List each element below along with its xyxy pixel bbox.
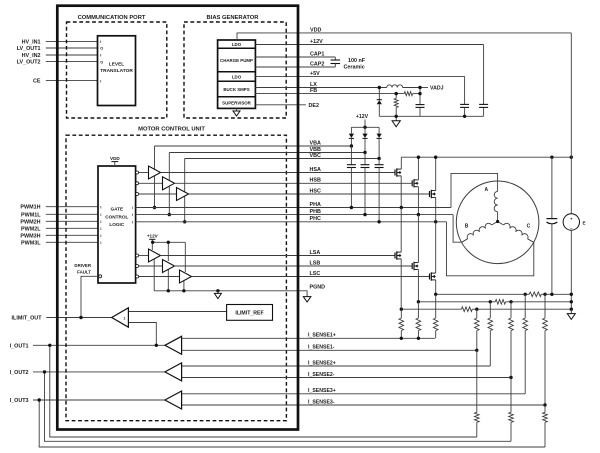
svg-text:I: I (100, 54, 101, 58)
wire LX (255, 87, 386, 89)
wire gcl to LS driver 1 (139, 255, 149, 257)
svg-text:SUPERVISOR: SUPERVISOR (222, 100, 252, 105)
bias ground stub (236, 108, 238, 111)
inductor L1 (387, 85, 403, 88)
junction dot fault-ilimit (79, 316, 82, 319)
wire phase B (453, 215, 462, 243)
wire gcl to HS driver 1 (139, 172, 149, 174)
svg-text:A: A (484, 187, 488, 193)
svg-text:HSC: HSC (310, 188, 321, 194)
wire VADJ stub (420, 87, 428, 89)
wire buck gnd rail (379, 115, 483, 117)
resistor shunt A (529, 292, 541, 297)
svg-text:VBC: VBC (310, 153, 321, 159)
wire CE (46, 80, 98, 82)
svg-text:+12V: +12V (147, 233, 159, 238)
svg-text:HV_IN1: HV_IN1 (22, 39, 41, 45)
svg-text:LV_OUT1: LV_OUT1 (17, 46, 41, 52)
wire VADJ vertical (419, 88, 421, 105)
junction dot minus x=545 (543, 403, 546, 406)
svg-text:ILIMIT_OUT: ILIMIT_OUT (12, 316, 43, 322)
op-amp LS driver 2 (163, 260, 175, 273)
wire minus to wrap x=511 (510, 422, 512, 441)
svg-text:GATE: GATE (110, 207, 123, 212)
wire gcl to HS driver 2 (139, 182, 163, 184)
svg-text:I_OUT3: I_OUT3 (10, 398, 29, 404)
wire I_SENSE3+ (182, 393, 526, 395)
svg-text:PWM1H: PWM1H (20, 205, 40, 211)
wire PWM3H (46, 234, 98, 236)
svg-text:PWM3L: PWM3L (21, 240, 41, 246)
wire I_SENSE1+ (182, 337, 435, 339)
wire LSC (192, 276, 430, 278)
ground bias (233, 111, 240, 116)
wire line A (436, 293, 530, 295)
wire sense1p branch top x=401.3 (400, 309, 402, 318)
diode D-buck (377, 99, 382, 101)
junction dot minus x=511 (509, 376, 512, 379)
svg-text:I: I (100, 40, 101, 44)
wire minus lower x=476.8 (476, 350, 478, 412)
svg-text:E: E (583, 220, 586, 225)
wire VBB (169, 152, 365, 154)
junction dots VB (350, 144, 353, 147)
wire phase A (451, 173, 498, 207)
wire I_SENSE2- (182, 377, 511, 379)
svg-text:ILIMIT_REF: ILIMIT_REF (235, 311, 263, 317)
svg-text:LOGIC: LOGIC (109, 222, 124, 227)
op-amp HS driver 2 (163, 177, 175, 190)
wire HV_IN2 (46, 54, 98, 56)
svg-text:LSA: LSA (310, 250, 321, 256)
wire fault to ilimit (81, 276, 99, 317)
wire VDD down right (570, 33, 572, 214)
resistor shunt B (495, 300, 505, 305)
capacitor C-5V (460, 103, 469, 105)
wire I_SENSE1- (182, 349, 477, 351)
svg-text:TRANSLATOR: TRANSLATOR (100, 68, 133, 74)
svg-text:FAULT: FAULT (77, 269, 91, 274)
svg-text:I_SENSE2+: I_SENSE2+ (308, 360, 336, 366)
wire sense1p branch bot x=418.4 (417, 331, 419, 339)
svg-text:+12V: +12V (356, 114, 369, 120)
wire plus tap bot x=490.3 (489, 331, 491, 366)
junction dots line C (400, 308, 403, 311)
svg-text:PGND: PGND (310, 285, 326, 291)
transistor Q1 HS (394, 170, 396, 176)
wire cvadj dn (419, 107, 421, 116)
svg-text:COMMUNICATION PORT: COMMUNICATION PORT (78, 15, 146, 21)
svg-text:I_OUT2: I_OUT2 (10, 370, 29, 376)
wire +5V (255, 75, 464, 77)
wire PHC (136, 221, 447, 223)
wire LSB (175, 265, 413, 267)
bias generator dashed box (184, 22, 286, 118)
wire Q4 drain (400, 208, 402, 253)
wire VB drop 3 (184, 159, 186, 193)
svg-text:LSB: LSB (310, 260, 321, 266)
svg-text:I: I (132, 220, 133, 224)
wire HV_IN1 (46, 40, 98, 42)
wire PWM2H (46, 220, 98, 222)
svg-text:PWM2L: PWM2L (21, 226, 41, 232)
resistor R plus x=490.3 (488, 318, 493, 331)
svg-text:VADJ: VADJ (430, 86, 444, 92)
svg-text:CE: CE (33, 79, 41, 85)
motor winding B (492, 222, 498, 226)
wire line C (401, 308, 461, 310)
svg-text:I: I (100, 241, 101, 245)
transistor Q3 HS (429, 191, 431, 197)
wire LS T2 top drop (167, 242, 169, 261)
wire PH return drop 3 (184, 196, 186, 222)
capacitor Cboot C (378, 159, 380, 165)
wire VDD from stack (237, 33, 571, 40)
wire dbuck dn (378, 105, 380, 117)
wire PH return drop 1 (154, 175, 156, 208)
svg-text:+5V: +5V (310, 71, 320, 77)
wire I_OUT3 (33, 399, 165, 401)
svg-text:I: I (100, 234, 101, 238)
wire minus to wrap x=476.8 (476, 422, 478, 437)
wire comp to ref (128, 311, 226, 313)
svg-text:HSB: HSB (310, 178, 321, 184)
svg-text:I_SENSE1-: I_SENSE1- (308, 345, 335, 351)
junction dots line A (434, 293, 437, 296)
junction dots top right (378, 86, 381, 89)
ground internal (214, 293, 221, 298)
motor winding A (494, 191, 497, 211)
junction dot comp tap (155, 344, 158, 347)
wire c12v dn (483, 107, 485, 116)
+12V LS tee (149, 238, 155, 240)
wire PWM2L (46, 227, 98, 229)
junction dots PH outside (350, 206, 353, 209)
ground buck (392, 121, 400, 127)
wire +12V feed (364, 120, 366, 128)
wire internal gnd stub (217, 291, 219, 293)
svg-text:CONTROL: CONTROL (105, 214, 128, 219)
wire gnd stub buck (395, 116, 397, 121)
resistor R-FB (404, 92, 412, 96)
capacitor C-DC link (551, 157, 553, 218)
wire PH return drop 2 (168, 185, 170, 214)
ground PGND (303, 297, 311, 302)
wire sense1p branch top x=418.4 (417, 302, 419, 318)
wire PWM3L (46, 241, 98, 243)
transistor Q5 LS (411, 263, 413, 269)
wire minus lower x=511 (510, 378, 512, 413)
wire LV_OUT2 (46, 61, 98, 63)
gcl fault pin circle (99, 275, 102, 278)
wire LS bottom drop 3 (183, 279, 185, 291)
wire LSA (161, 255, 396, 257)
wire +12V LS bus (153, 241, 186, 243)
svg-text:I: I (132, 206, 133, 210)
op-amp HS driver 3 (177, 188, 189, 201)
svg-text:I_SENSE1+: I_SENSE1+ (308, 333, 336, 339)
wire Q3 source (435, 197, 437, 221)
communication port dashed box (67, 22, 167, 118)
wire +5V cap branch (464, 76, 466, 104)
svg-text:Ceramic: Ceramic (344, 65, 365, 71)
gate control logic block U2 (98, 166, 136, 283)
gcl output circle LS3 (136, 275, 139, 278)
wire Q3 drain (435, 157, 437, 190)
battery E (563, 214, 579, 230)
wire VB drop 1 (154, 146, 156, 171)
motor control unit dashed box (66, 135, 286, 421)
diode at x=379.1 (378, 127, 380, 133)
svg-text:1: 1 (124, 317, 126, 321)
wire HSC (189, 193, 430, 195)
gcl output circle LS1 (136, 254, 139, 257)
wire CAP1 (255, 56, 335, 58)
wire I_OUT1 wrap (50, 345, 477, 437)
svg-text:PHC: PHC (310, 216, 321, 222)
op-amp LS driver 3 (180, 270, 192, 283)
capacitor CAP1-CAP2 100nF (334, 57, 336, 60)
resistor R minus upper x=511 (509, 318, 514, 331)
svg-text:HV_IN2: HV_IN2 (22, 53, 41, 59)
wire plus tap top x=490.3 (489, 302, 491, 318)
motor winding C (498, 222, 504, 226)
resistor shunt C (462, 307, 473, 312)
wire diode bus (351, 126, 379, 128)
wire PGND bus (154, 290, 298, 292)
wire Q2 drain (417, 157, 419, 180)
wire c5v dn (464, 107, 466, 116)
wire +12V cap branch (483, 45, 485, 105)
bias stack outline (218, 40, 256, 108)
wire DE2 (255, 104, 306, 106)
wire LS bottom drop 2 (167, 268, 169, 291)
resistor R minus lower x=545 (543, 412, 548, 422)
gcl output circle HS2 (136, 182, 139, 185)
wire gcl to LS driver 2 (139, 265, 163, 267)
wire LX to VADJ node (403, 87, 420, 89)
wire gnd right stub (570, 309, 572, 313)
capacitor Cboot A (350, 146, 352, 165)
resistor R sense1p x=435.7 (433, 318, 438, 331)
wire VBA (155, 145, 352, 147)
resistor R-div branch (395, 94, 397, 99)
motor circle M (456, 181, 539, 264)
svg-text:B: B (465, 224, 469, 230)
wire LV_OUT1 (46, 47, 98, 49)
wire battery down (570, 230, 572, 309)
capacitor Cboot B (364, 153, 366, 165)
wire CAP2 (255, 66, 335, 68)
op-amp sense amp 2 (165, 363, 182, 381)
wire plus tap bot x=525.2 (524, 331, 526, 394)
LDO2 block (218, 80, 256, 82)
wire Q6 source (435, 280, 437, 294)
diode at x=365 (364, 127, 366, 133)
ground right (567, 314, 575, 320)
svg-text:MOTOR CONTROL UNIT: MOTOR CONTROL UNIT (138, 126, 205, 132)
wire plus tap top x=525.2 (524, 294, 526, 318)
diode at x=351.4 (350, 127, 352, 133)
op-amp sense amp 3 (165, 391, 182, 409)
wire I_SENSE3- (182, 404, 545, 406)
wire PGND stub (298, 291, 307, 297)
svg-text:DE2: DE2 (309, 103, 320, 109)
svg-text:LV_OUT2: LV_OUT2 (17, 60, 41, 66)
resistor R sense1p x=418.4 (416, 318, 421, 331)
svg-text:PHB: PHB (310, 209, 321, 215)
junction dot diode bus (363, 126, 366, 129)
svg-text:I: I (100, 213, 101, 217)
svg-text:PWM1L: PWM1L (21, 212, 41, 218)
wire PHB (136, 214, 454, 216)
wire I_OUT2 (33, 371, 165, 373)
transistor Q4 LS (394, 253, 396, 259)
wire minus mid x=476.8 (476, 331, 478, 351)
motor star dot (496, 220, 499, 223)
wire top rail VM (400, 157, 402, 169)
IC chip outline (57, 6, 298, 430)
resistor R sense1p x=401.3 (399, 318, 404, 331)
buck smps block (218, 96, 256, 98)
wire sense1p branch bot x=435.7 (435, 331, 437, 339)
svg-text:I: I (100, 227, 101, 231)
wire minus lower x=545 (544, 405, 546, 412)
svg-text:PWM3H: PWM3H (20, 233, 40, 239)
svg-text:HSA: HSA (310, 167, 321, 173)
wire PWM1H (46, 206, 98, 208)
gcl output circle HS3 (136, 193, 139, 196)
wire sense1p branch top x=435.7 (435, 294, 437, 318)
svg-text:LDO: LDO (232, 42, 242, 47)
junction dots I_SENSE1+ (400, 337, 403, 340)
junction dots LS bus (151, 241, 154, 244)
op-amp LS driver 1 (149, 249, 161, 262)
wire minus tap top x=511 (510, 302, 512, 318)
capacitor C-12V (479, 103, 488, 105)
op-amp ILIMIT comparator (112, 308, 129, 327)
svg-text:O: O (100, 47, 103, 51)
wire LS T3 top drop (184, 242, 186, 272)
svg-text:LEVEL: LEVEL (109, 62, 125, 68)
resistor R minus lower x=511 (509, 412, 514, 422)
svg-text:CHARGE PUMP: CHARGE PUMP (220, 58, 253, 63)
wire FB to VADJ node (413, 93, 420, 95)
transistor Q2 HS (411, 180, 413, 186)
charge pump block (218, 71, 256, 73)
svg-text:I: I (100, 220, 101, 224)
svg-text:LDO: LDO (232, 74, 242, 79)
wire Q6 drain (435, 222, 437, 273)
wire I_OUT3 wrap (39, 400, 545, 447)
wire rdiv dn (395, 108, 397, 117)
wire minus mid x=545 (544, 331, 546, 405)
wire sense1p branch bot x=401.3 (400, 331, 402, 339)
diode D-buck branch (378, 88, 380, 100)
op-amp sense amp 1 (165, 336, 182, 354)
svg-text:+12V: +12V (310, 39, 323, 45)
svg-text:PHA: PHA (310, 202, 321, 208)
wire I_OUT1 (33, 344, 165, 346)
wire Q4 source (400, 259, 402, 309)
svg-text:VDD: VDD (310, 27, 321, 33)
transistor Q6 LS (429, 274, 431, 280)
svg-text:I: I (100, 205, 101, 209)
wire Q5 drain (417, 215, 419, 263)
svg-text:FB: FB (310, 88, 317, 94)
svg-text:C: C (527, 224, 531, 230)
svg-text:PWM2H: PWM2H (20, 219, 40, 225)
wire Q1 source (400, 176, 402, 208)
svg-text:VBA: VBA (310, 140, 321, 146)
wire minus tap top x=476.8 (476, 309, 478, 318)
level translator block U1 (98, 36, 136, 106)
wire minus tap top x=545 (544, 294, 546, 318)
junction dots line B (417, 300, 420, 303)
wire I_SENSE2+ (182, 365, 491, 367)
wire VB drop 2 (168, 153, 170, 182)
svg-text:I: I (100, 79, 101, 83)
wire PWM1L (46, 213, 98, 215)
wire line B (418, 301, 495, 303)
svg-text:LSC: LSC (310, 271, 321, 277)
wire ILIMIT_OUT (46, 317, 111, 319)
wire gcl to LS driver 3 (139, 276, 180, 278)
svg-text:BUCK SMPS: BUCK SMPS (223, 87, 249, 92)
resistor R-div (394, 98, 398, 107)
resistor R minus lower x=476.8 (475, 412, 480, 422)
wire Q2 source (417, 187, 419, 215)
wire minus to wrap x=545 (544, 422, 546, 447)
svg-text:I_SENSE3+: I_SENSE3+ (308, 388, 336, 394)
svg-text:I_SENSE3-: I_SENSE3- (308, 399, 335, 405)
junction dots rail (417, 156, 420, 159)
svg-text:100 nF: 100 nF (348, 58, 366, 64)
wire comp lower input (128, 323, 156, 346)
svg-text:DRIVER: DRIVER (74, 263, 91, 268)
svg-text:CAP2: CAP2 (310, 61, 324, 67)
junction dots PGND bus (167, 289, 170, 292)
wire PHA (136, 207, 451, 209)
wire +12V (255, 44, 483, 46)
resistor R minus upper x=545 (543, 318, 548, 331)
junction dot minus x=476.8 (475, 349, 478, 352)
gcl output circle HS1 (136, 171, 139, 174)
svg-text:I_SENSE2-: I_SENSE2- (308, 372, 335, 378)
op-amp HS driver 1 (149, 166, 161, 179)
wire I_OUT2 wrap (45, 372, 512, 441)
wire LS bottom drop 1 (153, 258, 155, 291)
wire gcl to HS driver 3 (139, 193, 177, 195)
resistor R plus x=525.2 (523, 318, 528, 331)
svg-text:I_OUT1: I_OUT1 (10, 343, 29, 349)
svg-text:CAP1: CAP1 (310, 51, 324, 57)
svg-text:BIAS GENERATOR: BIAS GENERATOR (207, 15, 260, 21)
capacitor C-VADJ (416, 104, 425, 106)
wire VBC (185, 158, 379, 160)
svg-text:LX: LX (310, 82, 317, 88)
svg-text:O: O (100, 60, 103, 64)
wire HSA (161, 172, 396, 174)
wire Q5 source (417, 269, 419, 301)
LDO block (218, 47, 256, 49)
wire minus mid x=511 (510, 331, 512, 378)
junction dots I_OUT (48, 344, 51, 347)
junction dots HS returns (153, 206, 156, 209)
svg-text:I: I (132, 213, 133, 217)
ILIMIT_REF box (227, 305, 273, 321)
resistor R minus upper x=476.8 (475, 318, 480, 331)
